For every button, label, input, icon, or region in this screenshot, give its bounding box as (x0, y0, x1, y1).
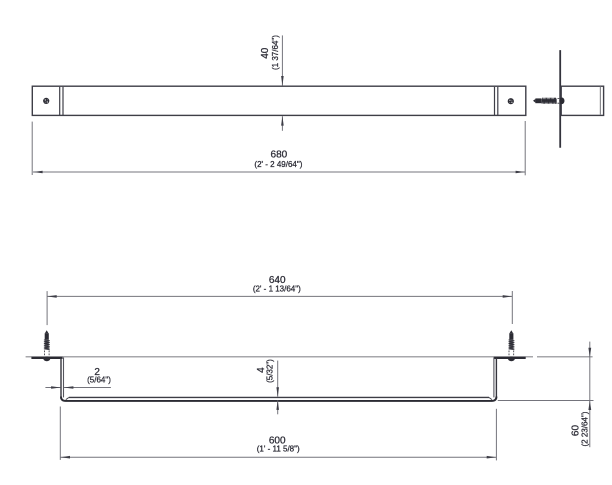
svg-text:(2' - 2 49/64"): (2' - 2 49/64") (254, 160, 302, 169)
svg-text:(2 23/64"): (2 23/64") (580, 411, 589, 446)
svg-text:(1' - 11 5/8"): (1' - 11 5/8") (257, 445, 300, 454)
svg-text:40: 40 (260, 47, 271, 59)
svg-text:(2' - 1 13/64"): (2' - 1 13/64") (253, 285, 301, 294)
svg-text:(5/64"): (5/64") (87, 376, 111, 385)
svg-text:(1 37/64"): (1 37/64") (271, 35, 280, 70)
svg-text:(5/32"): (5/32") (265, 359, 274, 383)
